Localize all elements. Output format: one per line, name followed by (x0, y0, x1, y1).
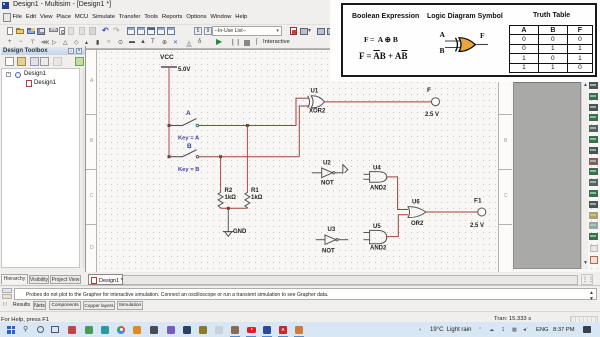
svg-text:U2: U2 (323, 161, 331, 167)
svg-text:VCC: VCC (160, 54, 174, 61)
svg-text:2.5 V: 2.5 V (425, 112, 439, 118)
svg-text:AND2: AND2 (370, 246, 387, 252)
svg-text:F1: F1 (474, 198, 482, 205)
svg-text:F: F (427, 87, 431, 94)
svg-text:GND: GND (233, 229, 247, 235)
svg-text:A: A (186, 110, 191, 117)
svg-text:R1: R1 (251, 188, 259, 194)
svg-text:Key = A: Key = A (178, 136, 200, 142)
svg-text:NOT: NOT (321, 181, 334, 187)
svg-text:B: B (187, 143, 192, 150)
svg-text:U6: U6 (412, 200, 420, 206)
svg-text:OR2: OR2 (411, 221, 424, 227)
svg-text:NOT: NOT (322, 249, 335, 255)
svg-text:R2: R2 (225, 188, 233, 194)
svg-text:2.5 V: 2.5 V (470, 223, 484, 229)
svg-text:XOR2: XOR2 (309, 109, 326, 115)
svg-text:U4: U4 (373, 166, 381, 172)
svg-text:1kΩ: 1kΩ (225, 195, 237, 201)
svg-text:Key = B: Key = B (178, 167, 199, 173)
svg-text:1kΩ: 1kΩ (251, 195, 263, 201)
svg-text:U5: U5 (373, 224, 381, 230)
svg-text:U3: U3 (328, 227, 336, 233)
svg-text:AND2: AND2 (370, 186, 387, 192)
svg-text:U1: U1 (311, 89, 319, 95)
svg-text:5.0V: 5.0V (178, 67, 190, 73)
